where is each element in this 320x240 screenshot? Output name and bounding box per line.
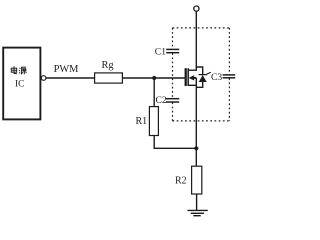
- dashed right edge lower (C3 to bottom): [228, 78, 230, 121]
- drain stub: [188, 69, 197, 71]
- node junction gate: [152, 76, 156, 80]
- dashed left edge middle (C1 to C2): [172, 53, 174, 98]
- resistor R2: [192, 166, 202, 194]
- node junction source: [194, 146, 198, 150]
- svg-text:PWM: PWM: [54, 64, 79, 75]
- dashed left edge lower (C2 to bottom): [172, 102, 174, 121]
- pin circle on IC output: [41, 76, 46, 81]
- label 电源 (drawn strokes): [11, 66, 26, 74]
- capacitor C2: [166, 99, 179, 102]
- svg-text:IC: IC: [15, 80, 24, 90]
- capacitor C1: [166, 49, 179, 52]
- dashed parasitic box top edge: [173, 27, 230, 29]
- body diode branch bottom: [196, 82, 202, 87]
- body diode cathode bar: [199, 74, 207, 76]
- wire R2 to ground: [196, 194, 198, 210]
- svg-text:C1: C1: [155, 47, 166, 58]
- diode cathode tail: [206, 72, 211, 74]
- wire Rg to gate: [122, 77, 184, 79]
- power supply IC box U1: [3, 48, 40, 120]
- svg-text:R1: R1: [136, 116, 148, 127]
- ground symbol: [188, 210, 208, 215]
- wire node to R2: [195, 148, 197, 166]
- svg-text:Rg: Rg: [102, 60, 114, 71]
- wire drain: [195, 11, 197, 70]
- wire R1 to source node: [154, 136, 196, 149]
- source stub: [188, 84, 196, 86]
- terminal circle drain: [194, 6, 199, 11]
- svg-text:C2: C2: [156, 95, 167, 106]
- dashed left edge upper (to C1): [172, 28, 174, 49]
- capacitor C3: [223, 75, 236, 78]
- dashed bottom edge: [173, 120, 230, 122]
- body diode D1 triangle: [199, 75, 207, 82]
- wire junction to R1: [153, 78, 155, 107]
- body arrow of Q1: [189, 75, 195, 80]
- transistor Q1 gate bar: [185, 68, 187, 86]
- svg-text:R2: R2: [175, 176, 187, 187]
- body arrow wire: [193, 77, 196, 79]
- resistor R1: [149, 107, 158, 136]
- wire source down: [195, 78, 197, 148]
- transistor Q1 channel bar: [187, 68, 189, 86]
- resistor Rg: [95, 73, 123, 83]
- dashed right edge upper (to C3): [228, 28, 230, 75]
- body diode branch top: [196, 67, 202, 75]
- wire PWM: [46, 77, 94, 79]
- svg-text:C3: C3: [211, 72, 222, 83]
